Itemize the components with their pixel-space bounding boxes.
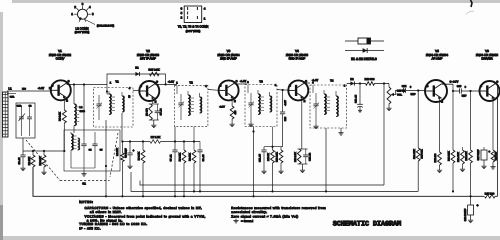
svg-text:C3 .05: C3 .05 bbox=[18, 157, 21, 165]
svg-text:R11 5K: R11 5K bbox=[267, 153, 270, 161]
svg-text:C8 .05: C8 .05 bbox=[202, 154, 205, 161]
svg-text:CONV: CONV bbox=[56, 57, 65, 61]
svg-text:R9 1.5K: R9 1.5K bbox=[138, 151, 141, 160]
svg-text:IF - 455 KC.: IF - 455 KC. bbox=[79, 227, 101, 231]
svg-text:R17 100: R17 100 bbox=[485, 193, 495, 196]
svg-text:C5A: C5A bbox=[10, 96, 15, 99]
svg-text:R15 5K: R15 5K bbox=[397, 90, 405, 93]
svg-text:B: B bbox=[289, 85, 291, 88]
svg-text:(BOT VIEW): (BOT VIEW) bbox=[186, 30, 201, 33]
svg-text:OSC: OSC bbox=[80, 110, 85, 113]
svg-text:R20 2.7K: R20 2.7K bbox=[448, 151, 451, 161]
svg-text:C: C bbox=[156, 81, 158, 84]
svg-text:C11 .05: C11 .05 bbox=[259, 153, 262, 162]
svg-text:+: + bbox=[477, 204, 479, 208]
svg-text:R16 390: R16 390 bbox=[365, 78, 375, 81]
svg-text:2ND IF AMP: 2ND IF AMP bbox=[220, 57, 237, 61]
svg-text:5MF: 5MF bbox=[462, 95, 467, 98]
svg-text:L1: L1 bbox=[8, 86, 12, 90]
svg-text:SCHEMATIC DIAGRAM: SCHEMATIC DIAGRAM bbox=[333, 221, 401, 229]
svg-text:C: C bbox=[68, 80, 70, 83]
svg-text:(BOT VIEW): (BOT VIEW) bbox=[75, 31, 90, 34]
svg-text:C19 100MF: C19 100MF bbox=[464, 208, 467, 221]
svg-text:R23 220: R23 220 bbox=[495, 151, 498, 160]
svg-text:R10 1.5K: R10 1.5K bbox=[294, 152, 297, 162]
svg-text:C1: C1 bbox=[82, 182, 86, 186]
svg-text:C10: C10 bbox=[284, 116, 287, 121]
svg-text:3RD IF AMP: 3RD IF AMP bbox=[289, 57, 306, 61]
svg-text:C15: C15 bbox=[457, 85, 462, 88]
svg-text:-1.3V: -1.3V bbox=[284, 100, 287, 106]
svg-text:-1.3V: -1.3V bbox=[219, 106, 225, 109]
svg-text:C: C bbox=[305, 80, 307, 83]
svg-text:-1.1V: -1.1V bbox=[38, 87, 44, 90]
svg-text:5MF: 5MF bbox=[411, 93, 416, 96]
svg-text:C5 .04: C5 .04 bbox=[160, 108, 163, 115]
svg-text:R5 470: R5 470 bbox=[145, 108, 148, 116]
svg-text:R1 10K: R1 10K bbox=[28, 157, 31, 165]
svg-text:R7 1.5K: R7 1.5K bbox=[151, 136, 161, 139]
svg-text:C17 50MF: C17 50MF bbox=[477, 149, 480, 160]
svg-text:-1.4V: -1.4V bbox=[240, 80, 246, 83]
svg-text:R4 10K: R4 10K bbox=[116, 148, 119, 156]
svg-text:C -0.7V: C -0.7V bbox=[450, 81, 459, 84]
svg-text:C: C bbox=[496, 80, 498, 83]
svg-text:R12 6.8K: R12 6.8K bbox=[276, 152, 279, 162]
svg-text:R21 4.7K: R21 4.7K bbox=[457, 152, 460, 162]
svg-text:R22 68K: R22 68K bbox=[465, 151, 468, 160]
svg-text:R27 2.2K: R27 2.2K bbox=[149, 68, 160, 71]
svg-text:VOL: VOL bbox=[397, 94, 402, 97]
svg-text:R6 10K: R6 10K bbox=[189, 153, 192, 161]
svg-text:R18 220: R18 220 bbox=[434, 153, 437, 162]
svg-text:T1: T1 bbox=[115, 80, 119, 84]
svg-text:B: B bbox=[140, 85, 142, 88]
svg-text:T2: T2 bbox=[189, 80, 193, 84]
svg-text:+: + bbox=[410, 85, 412, 89]
svg-text:R16 68K: R16 68K bbox=[421, 149, 424, 158]
svg-text:E2: E2 bbox=[350, 78, 354, 81]
svg-text:(COLOR DOT): (COLOR DOT) bbox=[97, 25, 114, 28]
svg-text:L2 CONN: L2 CONN bbox=[75, 26, 88, 30]
svg-text:= Ground: = Ground bbox=[241, 219, 254, 223]
svg-text:T4: T4 bbox=[330, 79, 334, 83]
svg-text:+: + bbox=[133, 149, 135, 153]
svg-text:C14: C14 bbox=[402, 85, 407, 88]
svg-text:R3 2.2K: R3 2.2K bbox=[59, 112, 62, 121]
svg-text:T3: T3 bbox=[259, 79, 263, 83]
svg-text:B: B bbox=[427, 85, 429, 88]
svg-text:E1: E1 bbox=[135, 66, 139, 69]
svg-text:E1 & E2 DETAILS: E1 & E2 DETAILS bbox=[351, 57, 377, 61]
svg-text:1ST IF AMP: 1ST IF AMP bbox=[140, 57, 156, 61]
svg-text:C7 .01: C7 .01 bbox=[170, 154, 173, 161]
svg-text:R2 8.2K: R2 8.2K bbox=[39, 156, 42, 165]
svg-text:B: B bbox=[480, 85, 482, 88]
svg-text:-1.1V: -1.1V bbox=[168, 81, 174, 84]
svg-text:C6 50MF: C6 50MF bbox=[124, 148, 127, 158]
svg-text:B: B bbox=[52, 85, 54, 88]
svg-text:C: C bbox=[236, 80, 238, 83]
svg-text:T1, T2, T3 & T4 CONN: T1, T2, T3 & T4 CONN bbox=[178, 25, 209, 29]
svg-text:C13 .05: C13 .05 bbox=[354, 94, 357, 103]
svg-text:R8 1.5K: R8 1.5K bbox=[179, 152, 182, 161]
svg-text:C12 .02: C12 .02 bbox=[308, 152, 311, 161]
svg-text:+: + bbox=[464, 85, 466, 89]
svg-text:R14 4.7K: R14 4.7K bbox=[413, 149, 416, 159]
svg-text:C1A: C1A bbox=[17, 105, 22, 108]
svg-text:AF AMP: AF AMP bbox=[431, 57, 442, 61]
svg-text:B: B bbox=[220, 85, 222, 88]
svg-text:NOTES:: NOTES: bbox=[79, 200, 93, 204]
svg-text:DRIVER: DRIVER bbox=[481, 57, 493, 61]
svg-text:Zero signal current ≈ 7.0MA (: Zero signal current ≈ 7.0MA (Min Vol) bbox=[231, 214, 298, 218]
